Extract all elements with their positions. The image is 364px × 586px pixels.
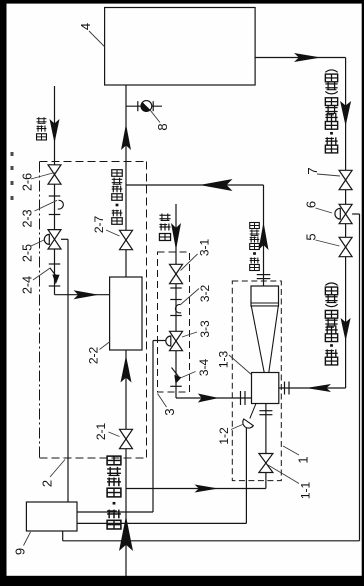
drain nozzle 1-2 <box>241 419 254 430</box>
leader label 1-2 <box>231 425 243 430</box>
cyclone separator cone <box>251 306 278 373</box>
valve 2-7 <box>120 230 133 240</box>
svg-text:2-1: 2-1 <box>94 423 108 441</box>
frame black edge left <box>0 0 7 586</box>
svg-text:2-7: 2-7 <box>92 216 106 234</box>
leader label 3-3 <box>182 332 197 337</box>
text condensate water unit 3 <box>159 234 170 241</box>
control line from actuator 3-3 <box>153 340 166 342</box>
flow arrow left on branch <box>200 179 233 191</box>
leader label 9 <box>24 532 31 546</box>
check valve 2-3 <box>35 200 58 211</box>
union tick below 3-4 <box>170 385 182 387</box>
svg-text:2-4: 2-4 <box>21 276 35 294</box>
wire flash tank right to low pressure line <box>279 387 346 389</box>
svg-text:1-1: 1-1 <box>299 482 313 500</box>
leader label 3 <box>158 394 167 408</box>
heater box 2-2 <box>110 277 142 350</box>
flow arrow up main steam inlet <box>119 516 133 551</box>
condensate water inlet line unit 3 <box>175 204 177 398</box>
leader label 7 <box>317 174 340 176</box>
pump tank box 9 <box>26 502 77 531</box>
flange ticks separator top <box>257 274 271 276</box>
steam trap stub from box 4 <box>126 105 162 107</box>
leader label 1-1 <box>268 465 299 484</box>
leader label 2-2 <box>100 342 111 350</box>
text mid-temp mid-pressure steam (left) <box>112 218 123 225</box>
leader label 2-1 <box>109 432 120 437</box>
valve 2-5 with actuator <box>48 230 61 240</box>
svg-text:3-4: 3-4 <box>197 359 211 377</box>
wire tank 9 to drain 1-2 <box>77 522 246 524</box>
flow arrow down condensate left <box>50 119 60 143</box>
flow arrow down right line upper <box>340 101 351 126</box>
unit 3 dashed boundary box <box>158 252 190 392</box>
valve 1-1 <box>259 454 273 464</box>
wire unit 3 outlet to flash tank <box>176 397 252 399</box>
flow arrow on branch to valve 1-1 <box>195 485 219 493</box>
svg-text:2-6: 2-6 <box>21 173 35 191</box>
svg-text:6: 6 <box>304 201 319 208</box>
wire drain 1-2 down <box>245 428 247 523</box>
wire right main vertical (low pressure steam) <box>345 58 347 389</box>
valve 3-1 <box>170 264 183 274</box>
flow arrow down right line lower <box>341 318 351 341</box>
leader label 5 <box>316 240 340 246</box>
wire condensate into heater 2-2 <box>55 294 110 296</box>
leader label 6 <box>316 208 333 213</box>
leader label 2-7 <box>106 230 120 236</box>
union ticks around check 2-4 <box>49 263 61 265</box>
flow arrow right on top line <box>294 53 321 62</box>
drain stub flash tank bottom left <box>250 404 256 419</box>
svg-text:3-3: 3-3 <box>198 320 212 338</box>
flow arrow up into heater 2-2 <box>121 356 132 383</box>
svg-text:7: 7 <box>305 167 320 174</box>
flash tank 1-3 <box>252 373 279 404</box>
text low-temp low-pressure steam (upper) <box>325 145 337 153</box>
svg-text:8: 8 <box>155 123 170 130</box>
wire flash tank bottom <box>265 404 267 489</box>
flow arrow up into box 4 <box>121 124 131 150</box>
wire bypass from valve 6 to bottom <box>352 213 359 215</box>
scan specks left margin <box>11 152 14 156</box>
svg-text:3-1: 3-1 <box>198 239 212 257</box>
svg-text:2-5: 2-5 <box>21 244 35 262</box>
wire bypass 2-5 down to pump tank 9 <box>67 239 69 502</box>
steam trap symbol 8 <box>141 101 152 112</box>
union tick below 3-2 <box>170 315 182 317</box>
leader label 3-1 <box>181 254 198 271</box>
svg-text:9: 9 <box>13 548 28 555</box>
flow arrow up separator riser <box>259 222 269 250</box>
tank 9 bottom stub <box>62 531 64 541</box>
svg-text:2-3: 2-3 <box>21 209 35 227</box>
valve 5 <box>339 237 352 247</box>
flange ticks flash tank right <box>284 382 286 395</box>
wire mid-pressure steam branch to separator <box>126 184 264 186</box>
svg-text:3: 3 <box>162 408 177 415</box>
svg-text:2-2: 2-2 <box>87 347 101 365</box>
cyclone separator head <box>251 286 279 306</box>
svg-text:4: 4 <box>78 23 93 30</box>
unit 1 dashed boundary box <box>232 281 281 481</box>
valve 3-3 with actuator <box>170 331 183 341</box>
text low-temp low-pressure steam (lower) <box>325 357 337 365</box>
frame black edge right <box>362 0 364 586</box>
leader label 2-6 <box>31 173 55 180</box>
leader label 4 <box>89 31 104 47</box>
leader label 1-3 <box>229 355 251 375</box>
check valve 3-4 flap <box>182 372 196 378</box>
flow arrow into heater 2-2 <box>74 290 99 299</box>
text high-temp high-pressure steam <box>107 520 121 529</box>
svg-text:3-2: 3-2 <box>198 285 212 303</box>
valve 2-1 <box>120 429 133 439</box>
wire separator riser <box>263 185 265 286</box>
svg-text:5: 5 <box>304 233 319 240</box>
wire high pressure steam to heater 2-2 <box>125 350 127 586</box>
wire high pressure branch to valve 1-1 <box>126 488 266 490</box>
unit 2 dashed boundary box <box>40 162 147 459</box>
valve 6 with actuator <box>339 204 352 214</box>
flange ticks steam trap <box>137 101 139 111</box>
wire main vertical from box 4 to heater 2-2 <box>125 85 127 277</box>
union ticks around check 2-3 <box>49 195 61 197</box>
bypass stub from valve 2-5 <box>61 238 68 240</box>
flange ticks flash tank bottom <box>259 410 272 412</box>
wire bottom return line <box>63 540 360 542</box>
condensate water inlet line left <box>54 86 56 295</box>
leader label 1 <box>283 446 299 455</box>
flow arrow into flash tank right <box>306 384 331 392</box>
check valve 3-2 <box>180 289 199 306</box>
wire steam outlet top right <box>255 57 346 59</box>
flow arrow down condensate unit 3 <box>171 223 181 250</box>
text mid-temp mid-pressure steam (separator) <box>250 264 260 270</box>
leader label 2 <box>50 460 65 478</box>
leader label 8 <box>150 110 160 122</box>
wire tank 9 to actuator control line <box>77 511 153 513</box>
evaporator box 4 <box>105 8 256 86</box>
frame black edge bottom <box>0 576 364 586</box>
svg-text:1-2: 1-2 <box>217 427 231 445</box>
frame black edge top <box>0 0 364 4</box>
union ticks around check 3-2 <box>170 287 182 289</box>
flange ticks flash tank left <box>240 391 242 405</box>
svg-text:1-3: 1-3 <box>217 351 231 369</box>
svg-text:1: 1 <box>296 456 311 463</box>
flow arrow into flash tank left <box>198 394 219 403</box>
text condensate water left <box>37 134 47 140</box>
valve 2-6 <box>48 165 61 175</box>
svg-text:2: 2 <box>40 480 55 487</box>
valve 7 <box>339 170 352 180</box>
leader label 2-5 <box>31 240 44 246</box>
check valve 2-4 flap <box>33 268 51 280</box>
